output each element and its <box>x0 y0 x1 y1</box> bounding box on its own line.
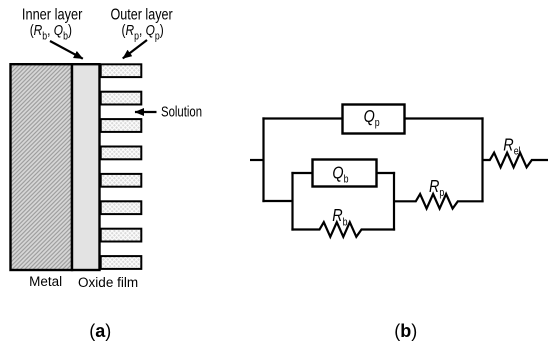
arrow to inner layer <box>50 41 83 59</box>
wire: right vertical bus <box>481 117 483 202</box>
CPE Q_b box <box>313 160 377 187</box>
tooth 1 <box>101 64 142 77</box>
svg-text:Oxide film: Oxide film <box>78 275 138 290</box>
tooth 6 <box>101 201 142 214</box>
svg-text:Rb: Rb <box>332 206 348 229</box>
metal block <box>11 64 73 270</box>
svg-text:Rel: Rel <box>503 135 520 158</box>
resistor R_b <box>291 222 395 237</box>
svg-text:Qb: Qb <box>332 163 348 186</box>
wire: left vertical bus <box>262 117 264 202</box>
resistor R_el <box>483 153 549 168</box>
svg-text:Metal: Metal <box>29 274 62 289</box>
svg-text:Qp: Qp <box>364 106 380 129</box>
inner oxide layer <box>72 64 100 270</box>
wire: top branch left segment <box>262 117 342 119</box>
tooth 8 <box>101 256 142 269</box>
outer layer teeth <box>101 64 142 269</box>
solution arrow <box>135 111 157 113</box>
svg-text:(Rp, Qp): (Rp, Qp) <box>122 22 164 43</box>
tooth 4 <box>101 147 142 160</box>
tooth 7 <box>101 229 142 242</box>
resistor R_p <box>394 194 484 209</box>
CPE Q_p box <box>343 105 405 134</box>
wire: inner parallel left vertical <box>291 172 293 231</box>
arrow to outer layer <box>123 40 147 58</box>
wire: left terminal stub <box>250 159 264 161</box>
svg-text:Solution: Solution <box>161 103 202 120</box>
wire: top branch right segment <box>405 117 484 119</box>
wire: Q_b branch right lead <box>377 172 396 174</box>
wire: lower branch segment <box>262 200 292 202</box>
circuit wires and components <box>250 105 548 237</box>
wire: Q_b branch left lead <box>291 172 312 174</box>
svg-text:Rp: Rp <box>429 177 445 200</box>
svg-text:(b): (b) <box>394 321 417 341</box>
svg-text:(Rb, Qb): (Rb, Qb) <box>30 22 72 43</box>
tooth 5 <box>101 174 142 187</box>
wire: inner parallel right vertical <box>393 172 395 231</box>
tooth 3 <box>101 119 142 132</box>
tooth 2 <box>101 92 142 105</box>
svg-text:Outer layer: Outer layer <box>111 5 173 23</box>
svg-text:(a): (a) <box>89 321 111 341</box>
